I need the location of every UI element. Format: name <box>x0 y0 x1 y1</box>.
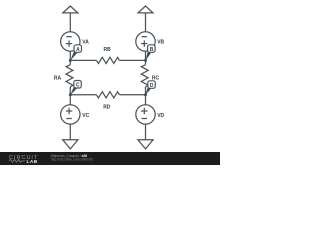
svg-text:RB: RB <box>104 47 112 53</box>
svg-text:VC: VC <box>82 113 89 119</box>
svg-text:B: B <box>150 47 154 53</box>
svg-text:D: D <box>150 83 154 89</box>
svg-text:VA: VA <box>82 40 89 46</box>
svg-text:RA: RA <box>54 75 62 81</box>
svg-text:C: C <box>76 83 80 89</box>
svg-text:VD: VD <box>157 113 164 119</box>
svg-text:RC: RC <box>152 76 160 82</box>
svg-text:http://circuitlab.com/c48hb45: http://circuitlab.com/c48hb45 <box>51 158 93 162</box>
svg-text:RD: RD <box>103 105 111 111</box>
svg-text:VB: VB <box>157 40 164 46</box>
svg-text:LAB: LAB <box>27 159 38 165</box>
svg-text:A: A <box>76 47 80 53</box>
